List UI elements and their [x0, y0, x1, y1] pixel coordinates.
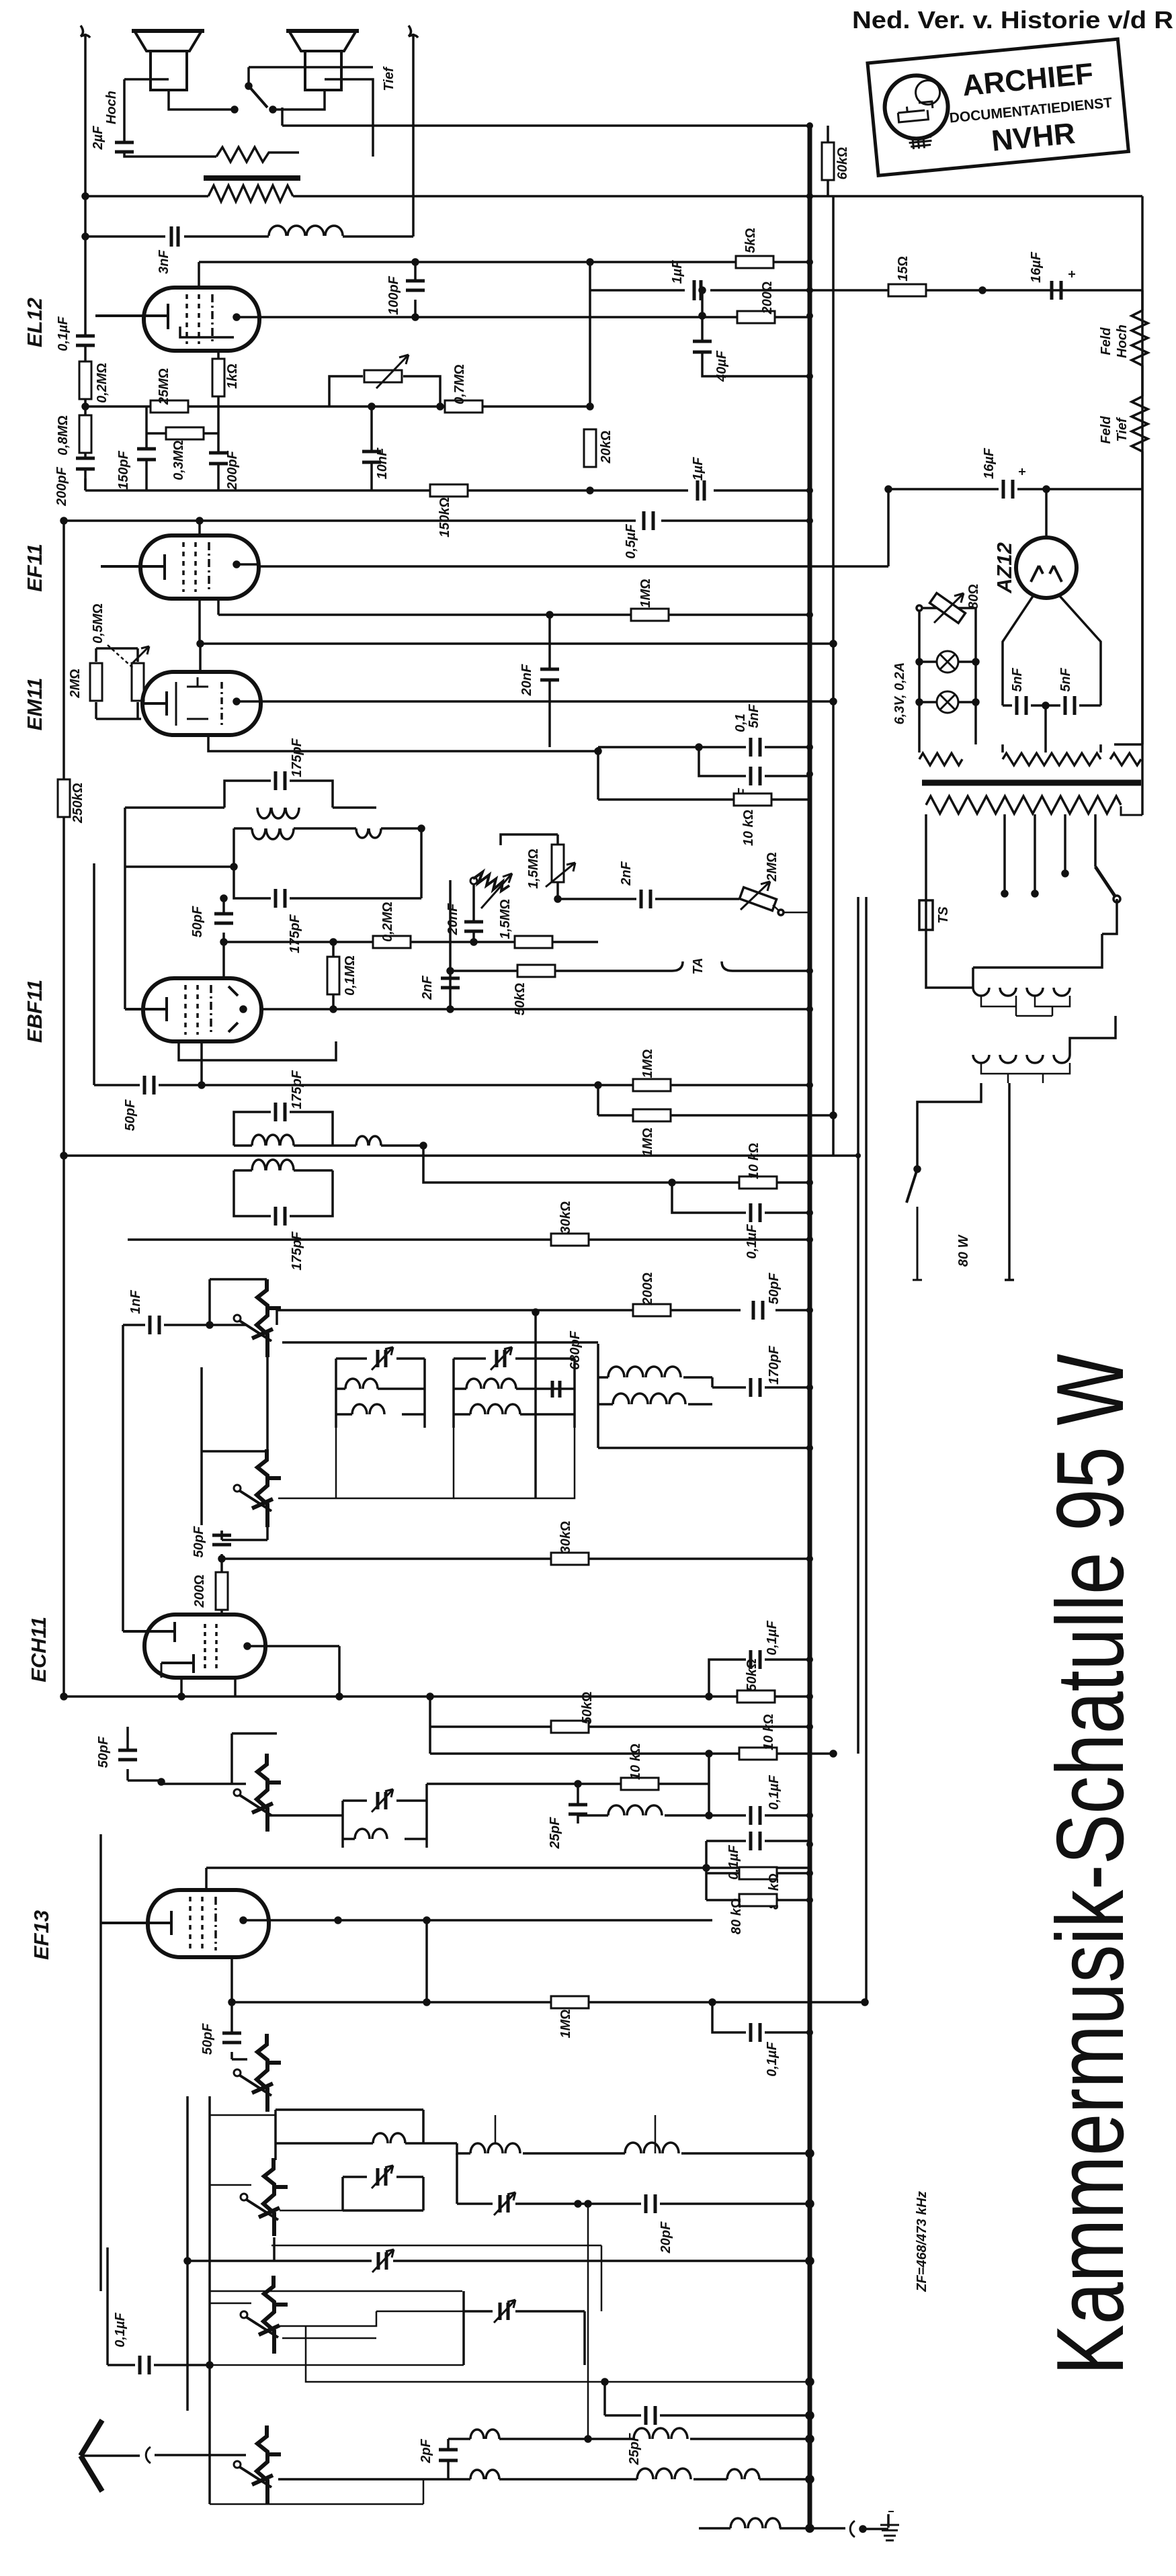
svg-text:200pF: 200pF: [54, 466, 69, 507]
osc coil top: [373, 2133, 405, 2143]
EM11 top lead: [199, 644, 202, 672]
capacitor 50pF ef13: [126, 1727, 129, 1780]
resistor 200ohm: [633, 1304, 671, 1316]
heater rail left for lamps: [919, 608, 976, 744]
EM11 tube: [142, 672, 261, 735]
svg-text:6,3V, 0,2A: 6,3V, 0,2A: [892, 662, 907, 725]
EBF11 tube: [143, 978, 261, 1041]
svg-text:0,2MΩ: 0,2MΩ: [380, 902, 395, 942]
coil e: [634, 2428, 687, 2439]
left rail x95: [62, 521, 65, 1697]
wire y1242 top loop: [501, 834, 558, 845]
svg-text:2MΩ: 2MΩ: [68, 669, 83, 698]
diode load wire y1445: [450, 970, 810, 972]
IFT3 coupling coil: [356, 1136, 381, 1146]
EBF11 left rail connection: [124, 867, 126, 1009]
svg-text:25MΩ: 25MΩ: [157, 368, 171, 405]
mains wires down: [917, 1083, 1014, 1280]
resistor 10k right: [598, 751, 810, 800]
trimmer tank1: [372, 1347, 393, 1370]
svg-text:50pF: 50pF: [767, 1273, 782, 1304]
svg-text:30kΩ: 30kΩ: [558, 1201, 573, 1234]
AZ12 tube: [1016, 538, 1077, 598]
resistor 50k: [517, 965, 555, 977]
tank1 coil row1: [345, 1379, 378, 1389]
resistor 1k vertical: [217, 351, 220, 406]
svg-text:50pF: 50pF: [192, 1526, 206, 1557]
svg-text:0,1µF: 0,1µF: [767, 1774, 782, 1809]
rail x150: [99, 1834, 102, 2291]
resistor 5k: [736, 256, 773, 268]
antenna: [81, 2420, 102, 2491]
trimmer 4: [464, 2291, 585, 2365]
band switch B: [241, 2276, 288, 2354]
resistor 50k: [551, 1721, 589, 1733]
volume pot scribble: [470, 877, 477, 884]
wire y915 with 1M: [218, 613, 810, 616]
svg-text:2pF: 2pF: [419, 2438, 433, 2463]
terminal top left: [81, 26, 90, 38]
capacitor 1uF on y730: [698, 480, 704, 501]
capacitor 50pF osc: [220, 1531, 223, 1559]
capacitor 0,1uF: [76, 336, 95, 345]
wire y1402 to pot bottom: [552, 899, 598, 942]
capacitor 2nF AVC: [641, 890, 650, 908]
band switch C: [234, 2425, 281, 2503]
svg-text:20kΩ: 20kΩ: [599, 431, 614, 464]
TA pickup: [672, 961, 732, 971]
svg-text:15Ω: 15Ω: [896, 256, 911, 282]
capacitor 50pF: [753, 1301, 763, 1320]
coil f: [470, 2430, 499, 2439]
wire y958: [200, 642, 833, 645]
EF13 tube: [148, 1890, 269, 1957]
EF13 bottom lead: [230, 1957, 233, 2002]
resistor 200ohm cathode: [220, 1559, 223, 1615]
selector frame wires: [973, 934, 1116, 1055]
wire y1290: [125, 865, 234, 868]
capacitor 2uF: [124, 134, 216, 157]
resistor 10k: [739, 1176, 777, 1189]
resistor 0,8M: [79, 415, 91, 453]
svg-text:EM11: EM11: [23, 678, 46, 731]
capacitor 175pF bottom: [276, 1207, 285, 1226]
svg-text:1nF: 1nF: [128, 1289, 143, 1314]
capacitor 175pF lower: [276, 889, 285, 908]
antenna connector: [146, 2447, 151, 2463]
oscillator tank 2: [454, 1359, 575, 1428]
svg-text:10 kΩ: 10 kΩ: [741, 810, 756, 846]
rail x183: [122, 1325, 124, 1631]
svg-text:TS: TS: [936, 906, 951, 924]
resistor 25M: [151, 400, 188, 413]
svg-text:ZF=468/473 kHz: ZF=468/473 kHz: [915, 2191, 929, 2292]
NVHR archive stamp: [868, 39, 1128, 175]
switch2 to 50pF: [222, 1527, 267, 1540]
svg-text:ECH11: ECH11: [27, 1617, 50, 1682]
svg-text:Hoch: Hoch: [1115, 325, 1130, 358]
EBF11 internals: [125, 997, 167, 1021]
resistor 30k: [551, 1234, 589, 1246]
osc section verticals: [187, 2096, 210, 2504]
heater winding 1: [918, 744, 921, 753]
terminal top right: [409, 26, 418, 38]
IF transformer 2 primary loop: [224, 781, 333, 808]
resistor 0,3M: [146, 432, 218, 435]
svg-text:0,7MΩ: 0,7MΩ: [452, 364, 467, 404]
EF13 internals: [101, 1911, 171, 1935]
EBF11 anode wire y1502: [261, 1008, 810, 1011]
capacitor 40uF: [702, 316, 810, 376]
svg-text:0,1µF: 0,1µF: [765, 1620, 780, 1655]
EF13 anode wire: [269, 1919, 712, 1922]
svg-text:80Ω: 80Ω: [966, 584, 981, 609]
resistor 60k: [827, 126, 829, 196]
capacitor 2nF detector: [449, 971, 452, 1009]
oscillator grid vertical x797: [534, 1312, 537, 1498]
detector node vertical x670: [449, 880, 452, 971]
wire y730: [85, 489, 810, 492]
AZ12 anodes: [1031, 566, 1062, 582]
tank2 coil row2: [470, 1404, 520, 1414]
svg-text:5nF: 5nF: [1058, 667, 1073, 691]
coil mid: [470, 2143, 520, 2153]
IFT3 primary coil: [252, 1135, 294, 1146]
svg-text:1kΩ: 1kΩ: [225, 363, 240, 389]
switch3 output wires: [267, 1815, 343, 1822]
trimmer tank2: [491, 1347, 512, 1370]
svg-text:2MΩ: 2MΩ: [765, 852, 780, 882]
svg-text:5nF: 5nF: [1010, 667, 1025, 691]
capacitor 50pF EBF11: [222, 898, 225, 978]
bus junction dots: [806, 122, 891, 2036]
capacitor 200pF mid: [217, 406, 220, 490]
svg-text:16µF: 16µF: [982, 447, 997, 479]
EL12 internals: [95, 304, 168, 329]
capacitor 150pF: [145, 406, 148, 490]
resistor 80k a: [706, 1872, 810, 1875]
svg-text:100pF: 100pF: [386, 275, 401, 315]
svg-text:0,8MΩ: 0,8MΩ: [56, 415, 71, 456]
svg-text:0,1µF: 0,1µF: [56, 316, 71, 351]
wire y3727: [210, 2479, 423, 2504]
EL12 tube: [144, 288, 259, 351]
pilot lamp 2: [919, 701, 976, 703]
svg-text:200pF: 200pF: [225, 450, 240, 490]
svg-text:10nF: 10nF: [375, 447, 390, 479]
pot 1,5M rect: [556, 834, 559, 899]
trimmer: [372, 1789, 393, 1812]
svg-text:150pF: 150pF: [116, 450, 131, 490]
center tap: [1044, 705, 1047, 744]
wire y470 with 200ohm: [702, 290, 810, 317]
wire y2610: [430, 1752, 833, 1755]
bottom coil j: [730, 2518, 780, 2528]
right rail: [1141, 196, 1144, 815]
EF11 screen lead: [198, 521, 201, 535]
trimmer 2: [457, 2153, 578, 2204]
wire y2570: [430, 1697, 810, 1754]
band switch 3: [234, 1754, 281, 1832]
capacitor 20pF: [578, 2202, 810, 2205]
rail x127 caps and resistors: [84, 237, 87, 490]
capacitor 0,1uF b: [706, 1841, 810, 1900]
resistor 1,5M on y1402: [515, 936, 552, 948]
wire y2155: [598, 1404, 810, 1448]
EBF11 bottom leads: [188, 1035, 336, 1085]
svg-text:1MΩ: 1MΩ: [558, 2009, 573, 2038]
wire y432 right with 15ohm and 16uF: [810, 289, 1142, 292]
svg-text:50pF: 50pF: [96, 1736, 111, 1768]
svg-text:1,5MΩ: 1,5MΩ: [526, 849, 541, 889]
EL12 screen lead up to y390: [198, 262, 200, 288]
svg-text:60kΩ: 60kΩ: [835, 147, 850, 180]
AVC wire y1338: [558, 898, 739, 900]
band switch 1: [234, 1279, 281, 1357]
voltage selector plugs row1: [973, 988, 1070, 996]
svg-text:Kammermusik-Schatulle 95 W: Kammermusik-Schatulle 95 W: [1037, 1354, 1144, 2375]
svg-text:170pF: 170pF: [767, 1345, 782, 1385]
svg-text:175pF: 175pF: [290, 1070, 304, 1109]
switch1 wires: [273, 1310, 810, 1326]
EM11 anode wire: [261, 700, 833, 703]
svg-text:0,1MΩ: 0,1MΩ: [343, 955, 358, 996]
hum potentiometer zigzag: [216, 147, 299, 162]
wire y1760: [333, 1182, 810, 1183]
IFT3 secondary coil: [252, 1160, 294, 1170]
svg-text:5kΩ: 5kΩ: [743, 228, 758, 253]
tank2 coil row1: [466, 1379, 516, 1389]
svg-text:0,5µF: 0,5µF: [624, 523, 638, 558]
svg-text:175pF: 175pF: [288, 914, 302, 953]
svg-text:250kΩ: 250kΩ: [71, 783, 85, 824]
IFT2 primary coil: [257, 808, 299, 818]
main bus vertical: [808, 126, 812, 2528]
svg-text:50kΩ: 50kΩ: [745, 1659, 759, 1692]
ECH11 bottom leads: [181, 1678, 235, 1697]
band switch 4: [234, 2034, 281, 2112]
capacitor 680pF plates: [552, 1381, 560, 1398]
svg-text:80 W: 80 W: [956, 1234, 971, 1267]
bus vertical 3: [857, 897, 859, 1754]
resistor 50k on y2525: [737, 1690, 775, 1703]
svg-text:Tief: Tief: [382, 66, 396, 91]
resistor 10k mid: [578, 1783, 709, 1785]
capacitor 200pF left: [76, 458, 95, 469]
capacitor 100pF: [414, 262, 417, 317]
capacitor 50pF osc grid: [230, 2002, 233, 2059]
capacitor 0,5uF: [644, 511, 653, 530]
tank3 coils: [608, 1367, 681, 1377]
capacitor 0,1uF stub: [672, 1183, 810, 1213]
svg-text:1MΩ: 1MΩ: [640, 1049, 655, 1078]
tap selector blade: [1095, 867, 1117, 899]
primary winding zigzag: [926, 796, 1121, 814]
primary taps: [1005, 814, 1095, 894]
heater winding 3: [1125, 744, 1126, 753]
wire y1155 with 0,1uF: [699, 747, 810, 776]
svg-text:200Ω: 200Ω: [760, 282, 775, 315]
wire y1402: [224, 933, 333, 942]
osc box top: [276, 2110, 423, 2160]
capacitor 25pF: [578, 1784, 608, 1823]
svg-text:680pF: 680pF: [568, 1330, 583, 1370]
svg-text:Feld: Feld: [1099, 327, 1114, 355]
volume pot: [329, 376, 440, 406]
wire y605: [85, 405, 590, 408]
svg-text:50kΩ: 50kΩ: [580, 1692, 595, 1725]
svg-text:30kΩ: 30kΩ: [558, 1521, 573, 1554]
svg-text:EF13: EF13: [30, 1910, 53, 1960]
svg-text:16µF: 16µF: [1029, 251, 1044, 283]
coil h: [637, 2468, 691, 2479]
svg-text:10 kΩ: 10 kΩ: [761, 1714, 776, 1750]
trimmer 3: [577, 2153, 579, 2204]
capacitor 680pF: [545, 1388, 546, 1389]
svg-text:2nF: 2nF: [619, 861, 634, 886]
input tank EF13: [343, 1784, 427, 1848]
svg-text:2µF: 2µF: [91, 126, 106, 151]
svg-text:20nF: 20nF: [446, 903, 460, 935]
svg-text:EBF11: EBF11: [23, 980, 46, 1043]
resistor 80k b: [706, 1899, 810, 1901]
resistor 0,2M: [373, 936, 411, 948]
IFT3 top: wire y1720: [64, 1154, 858, 1157]
wire y3545: [271, 2320, 810, 2382]
output transformer core: [204, 175, 300, 181]
resistor 1M lower: [598, 1085, 833, 1115]
capacitor 0,1uF anode: [712, 2002, 810, 2032]
AZ12 cathode leads: [1003, 595, 1101, 705]
switch A lower wire: [273, 2237, 276, 2261]
coil g: [470, 2470, 499, 2479]
svg-text:175pF: 175pF: [290, 738, 304, 777]
wire y775 with 0,5uF: [64, 519, 810, 522]
capacitor 20nF: [548, 615, 551, 747]
svg-text:1µF: 1µF: [691, 457, 706, 481]
capacitor 10nF: [370, 406, 373, 490]
heater winding 2: [1003, 744, 1101, 753]
wire y432 with 1uF cap: [590, 262, 810, 406]
field coil Hoch zigzag: [1132, 290, 1148, 387]
wire y3365 with trimmer: [187, 2260, 810, 2262]
trimmer loop 1: [343, 2177, 423, 2210]
capacitor 16uF AZ12: [999, 480, 1008, 499]
capacitor 170pF: [712, 1386, 810, 1389]
svg-text:0,5MΩ: 0,5MΩ: [91, 603, 106, 644]
IFT3 primary loop: [234, 1112, 333, 1146]
resistor 10k: [739, 1748, 777, 1760]
capacitor 5nF b: [1046, 704, 1101, 707]
IFT2 secondary coil: [252, 828, 294, 839]
mains switch: [913, 1207, 922, 1280]
field coil Tief zigzag: [1132, 387, 1148, 489]
coil right: [625, 2143, 679, 2153]
EM11 pots 2M and 0,5M: [96, 648, 141, 719]
coil parallel: [608, 1805, 662, 1815]
svg-text:AZ12: AZ12: [993, 542, 1016, 594]
wire y2655 right: [427, 1783, 578, 1785]
speaker Tief: [286, 31, 359, 90]
svg-text:50pF: 50pF: [123, 1099, 138, 1131]
svg-text:200Ω: 200Ω: [192, 1575, 207, 1608]
wire y292: [85, 195, 1142, 198]
svg-text:20nF: 20nF: [519, 664, 534, 696]
wire y2980: [232, 2001, 865, 2004]
capacitor 5nF a: [1003, 704, 1046, 707]
wire y1845: [128, 1238, 810, 1241]
svg-text:50pF: 50pF: [190, 906, 205, 937]
wire y1112 with 5nF: [598, 747, 810, 751]
svg-text:10 kΩ: 10 kΩ: [747, 1143, 761, 1179]
coupling coil: [356, 828, 381, 838]
grid bias wire y2780: [206, 1868, 810, 1890]
wire y2525: [64, 1695, 810, 1698]
svg-text:175pF: 175pF: [290, 1231, 304, 1271]
wire y2320: [222, 1557, 810, 1560]
resistor 20k: [584, 429, 596, 467]
ECH11 internals: [123, 1622, 175, 1642]
svg-text:1MΩ: 1MΩ: [640, 1127, 655, 1156]
svg-text:1µF: 1µF: [670, 260, 685, 284]
capacitor 1nF: [123, 1324, 208, 1326]
svg-text:10 kΩ: 10 kΩ: [628, 1744, 643, 1780]
svg-text:25pF: 25pF: [548, 1817, 562, 1849]
pot 2M: [739, 882, 776, 910]
ECH11 anode wire: [265, 1646, 339, 1697]
capacitor 3nF: [171, 226, 178, 247]
svg-text:50pF: 50pF: [200, 2023, 215, 2055]
wire y3520 with 0,1uF: [108, 2247, 210, 2365]
speaker switch network: [124, 67, 373, 157]
switch1 lower contact wires: [202, 1357, 267, 1525]
wire x1322 down from y728: [887, 489, 890, 566]
svg-text:200Ω: 200Ω: [640, 1273, 655, 1306]
svg-text:0,1µF: 0,1µF: [745, 1223, 759, 1258]
wire y2000: [271, 1343, 598, 1344]
svg-text:EL12: EL12: [23, 298, 46, 347]
capacitor 16uF: [1052, 281, 1061, 300]
ground lead: [810, 2527, 845, 2530]
resistor 1M: [551, 1996, 589, 2008]
EF11 cathode bottom leads: [200, 599, 218, 644]
svg-text:0,1µF: 0,1µF: [765, 2041, 780, 2076]
wire y843 EF11 anode to power: [259, 565, 888, 568]
ground symbol: [887, 2514, 890, 2528]
transformer core: [922, 780, 1141, 786]
EF11 tube: [140, 535, 259, 599]
AZ12 top lead: [1045, 489, 1048, 538]
capacitor 0,1uF ech: [709, 1660, 810, 1697]
svg-text:80 kΩ: 80 kΩ: [729, 1898, 744, 1934]
capacitor 25pF: [605, 2382, 810, 2415]
svg-text:1MΩ: 1MΩ: [638, 578, 653, 607]
svg-text:3nF: 3nF: [157, 249, 171, 273]
svg-text:TA: TA: [691, 957, 706, 974]
svg-text:EF11: EF11: [23, 544, 46, 592]
extra mesh wires bottom left: [210, 2115, 655, 2439]
band switch 2: [234, 1449, 281, 1527]
EM11 internals: [141, 691, 167, 716]
capacitor 175pF: [276, 771, 285, 790]
svg-text:Hoch: Hoch: [104, 91, 119, 124]
wire y728 right segment: [888, 488, 1142, 490]
svg-text:Tief: Tief: [1115, 417, 1130, 442]
resistor 15ohm: [888, 284, 926, 296]
svg-text:0,2MΩ: 0,2MΩ: [95, 363, 110, 403]
svg-text:20pF: 20pF: [659, 2221, 673, 2253]
voltage selector plugs row2: [973, 1055, 1070, 1063]
